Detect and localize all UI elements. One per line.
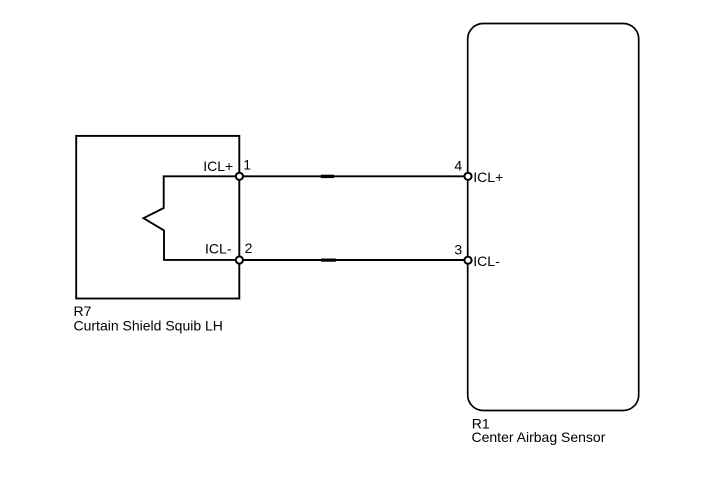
node pin 2 (R7 ICL-) bbox=[236, 256, 243, 263]
node pin 4 (R1 ICL+) bbox=[464, 173, 471, 180]
svg-text:2: 2 bbox=[245, 240, 253, 256]
svg-text:ICL-: ICL- bbox=[205, 241, 232, 257]
svg-text:4: 4 bbox=[454, 158, 462, 174]
splice mark on ICL+ wire bbox=[321, 175, 334, 178]
svg-text:Center Airbag Sensor: Center Airbag Sensor bbox=[472, 429, 606, 445]
svg-text:ICL+: ICL+ bbox=[473, 169, 503, 185]
svg-text:ICL+: ICL+ bbox=[203, 158, 233, 174]
node pin 1 (R7 ICL+) bbox=[236, 173, 243, 180]
svg-text:Curtain Shield Squib LH: Curtain Shield Squib LH bbox=[74, 317, 223, 333]
svg-text:1: 1 bbox=[243, 157, 251, 173]
connector R7 (Curtain Shield Squib LH) box bbox=[76, 136, 239, 299]
connector R1 (Center Airbag Sensor) rounded box bbox=[468, 24, 639, 411]
svg-text:3: 3 bbox=[454, 242, 462, 258]
svg-text:ICL-: ICL- bbox=[473, 253, 500, 269]
squib element inside R7 (bracket with zigzag) bbox=[144, 176, 240, 260]
wire ICL+ (pin 1 to pin 4) bbox=[239, 175, 468, 177]
wire ICL- (pin 2 to pin 3) bbox=[239, 259, 468, 261]
node pin 3 (R1 ICL-) bbox=[464, 257, 471, 264]
splice mark on ICL- wire bbox=[321, 259, 336, 262]
